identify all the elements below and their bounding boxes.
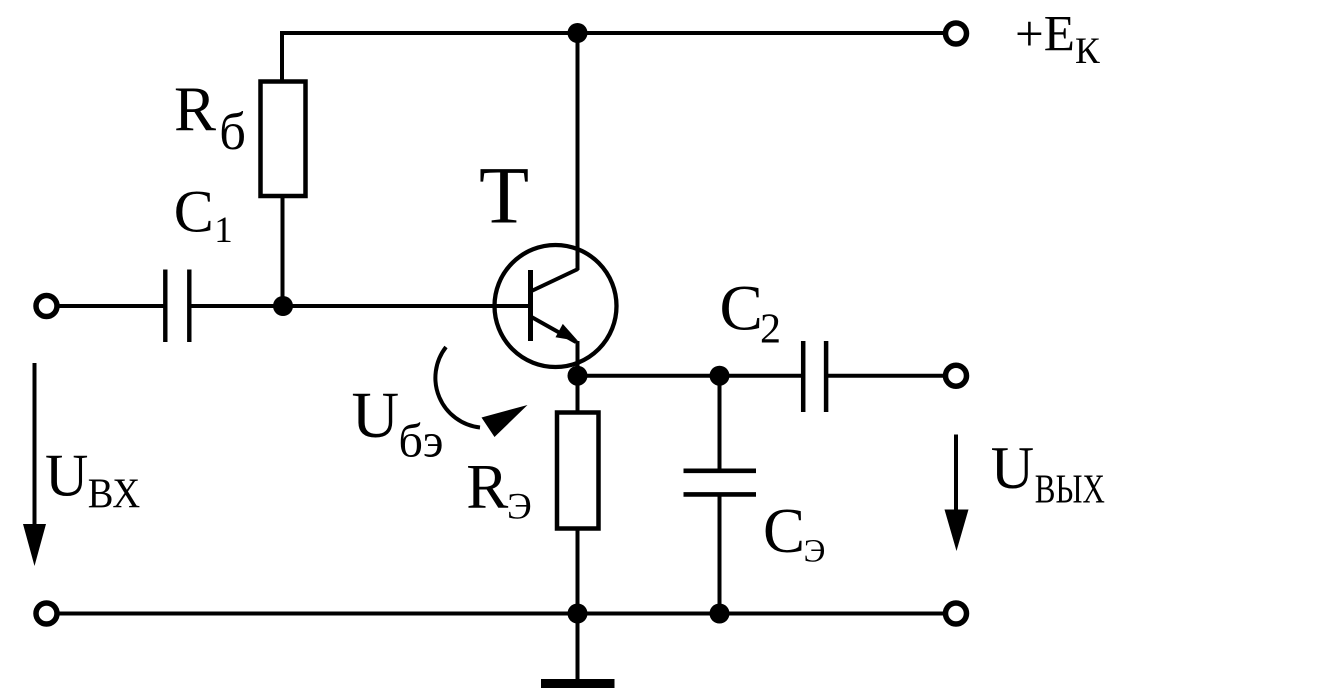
- svg-text:U: U: [45, 443, 88, 509]
- wire Re bottom lead: [576, 529, 580, 614]
- node base junction: [273, 296, 293, 316]
- label Uvx: [45, 443, 140, 518]
- capacitor C2: [803, 341, 826, 412]
- svg-text:R: R: [174, 74, 216, 144]
- ground: [541, 679, 615, 688]
- label Ube: [352, 379, 444, 468]
- label C2: [720, 272, 782, 352]
- arrow Uvyx: [945, 435, 969, 552]
- svg-text:1: 1: [214, 210, 233, 251]
- label Re: [466, 452, 531, 528]
- label Ce: [763, 496, 825, 570]
- label C1: [174, 178, 233, 251]
- svg-text:+E: +E: [1015, 6, 1075, 62]
- svg-text:C: C: [174, 178, 214, 244]
- wire Re top lead: [576, 376, 580, 412]
- wire Ce bottom lead: [718, 494, 722, 613]
- node Ce junction: [710, 366, 730, 386]
- wire emitter: [576, 341, 580, 377]
- terminal bottom right (open circle): [946, 603, 967, 624]
- wire input to C1: [58, 304, 166, 308]
- wire Rb top lead: [280, 31, 284, 82]
- wire ground lead: [576, 614, 580, 680]
- svg-text:К: К: [1075, 31, 1100, 72]
- node ground junction: [568, 604, 588, 624]
- svg-text:C: C: [720, 272, 763, 344]
- svg-text:U: U: [352, 379, 400, 452]
- resistor Rb: [261, 82, 306, 197]
- svg-text:Э: Э: [507, 487, 532, 528]
- terminal bottom left (open circle): [36, 603, 57, 624]
- node top rail junction: [568, 23, 588, 43]
- wire top rail: [282, 31, 944, 35]
- node emitter junction: [568, 366, 588, 386]
- resistor Re: [557, 413, 599, 529]
- wire emitter to C2: [578, 374, 804, 378]
- label Uvyx: [991, 435, 1105, 512]
- svg-text:ВХ: ВХ: [88, 471, 141, 517]
- wire Ce top lead: [718, 376, 722, 471]
- transistor T: [495, 245, 617, 367]
- terminal output (open circle): [946, 365, 967, 386]
- wire C1 to base: [189, 304, 529, 308]
- svg-text:R: R: [466, 452, 508, 522]
- label +Ek: [1015, 6, 1100, 72]
- label Rb: [174, 74, 246, 161]
- terminal +Ek (open circle): [946, 23, 967, 44]
- wire C2 to output: [826, 374, 945, 378]
- svg-text:бэ: бэ: [399, 415, 444, 468]
- terminal input (open circle): [36, 296, 57, 317]
- svg-text:C: C: [763, 496, 805, 566]
- svg-text:U: U: [991, 435, 1034, 501]
- capacitor C1: [165, 270, 189, 343]
- wire Rb bottom lead: [281, 196, 285, 307]
- svg-text:Э: Э: [804, 534, 826, 570]
- capacitor Ce: [684, 471, 757, 495]
- wire collector: [576, 33, 580, 270]
- svg-text:ВЫХ: ВЫХ: [1035, 466, 1105, 512]
- wire bottom rail: [58, 612, 946, 616]
- label T: [479, 150, 529, 241]
- node Ce bottom junction: [710, 604, 730, 624]
- svg-text:б: б: [219, 103, 246, 161]
- arrow Ube (curved): [435, 347, 527, 437]
- svg-text:T: T: [479, 150, 529, 241]
- arrow Uvx: [23, 363, 46, 566]
- svg-text:2: 2: [760, 306, 781, 352]
